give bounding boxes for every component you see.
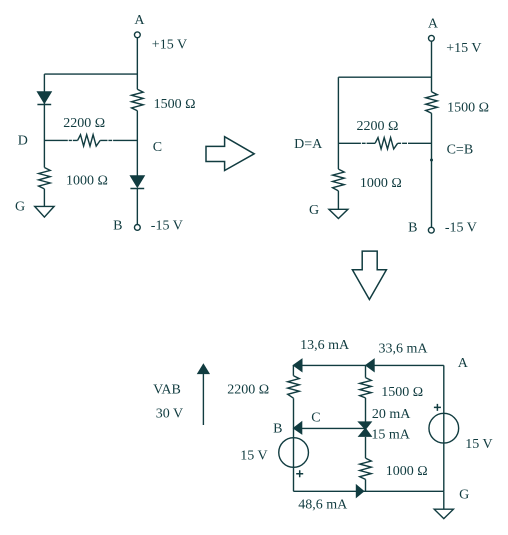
wire mid horizontal B to C junction — [293, 427, 365, 429]
wire resistor to node C=B (circuit 2) — [398, 142, 432, 144]
resistor R-1500 (circuit 1) zigzag — [132, 89, 144, 110]
wire left branch through diode to node D and 1000 ohm — [43, 74, 45, 167]
VAB arrow wire — [202, 374, 204, 426]
svg-text:D: D — [18, 134, 28, 149]
wire node D=A horizontal with leads (circuit 2) — [338, 142, 375, 144]
svg-text:B: B — [273, 422, 282, 437]
junction dot on right branch (circuit 2) — [430, 159, 433, 162]
svg-text:A: A — [134, 13, 145, 28]
wire top horizontal — [44, 73, 137, 75]
wire A to 1500 ohm — [136, 38, 138, 90]
svg-text:15 mA: 15 mA — [371, 427, 410, 442]
wire diode to terminal B — [136, 189, 138, 225]
wire to ground (bottom) — [443, 491, 445, 509]
resistor R-2200 (circuit 1) zigzag — [78, 135, 101, 146]
svg-text:C: C — [311, 410, 320, 425]
voltage source V2 — [429, 413, 459, 443]
svg-text:15 V: 15 V — [240, 449, 267, 464]
svg-text:A: A — [458, 356, 469, 371]
diode D2 — [131, 176, 144, 187]
wire node D horizontal with leads — [44, 139, 77, 141]
svg-text:C=B: C=B — [447, 143, 474, 158]
wire A to 1500 ohm (circuit 2) — [431, 41, 433, 92]
wire 1500 ohm to node C to diode — [136, 111, 138, 176]
svg-text:30 V: 30 V — [156, 407, 183, 422]
svg-text:A: A — [428, 17, 439, 32]
terminal B (circuit 1) — [134, 225, 140, 231]
voltage source V1 — [279, 438, 309, 468]
plus sign V2 — [434, 404, 441, 411]
svg-text:+15 V: +15 V — [446, 41, 481, 56]
wire bottom horizontal (bottom circuit) — [293, 490, 443, 492]
ground (bottom) — [434, 509, 453, 518]
svg-text:20 mA: 20 mA — [372, 407, 411, 422]
wire 1000 ohm to ground (circuit 2) — [337, 191, 339, 209]
svg-text:VAB: VAB — [153, 382, 181, 397]
diode D1 — [38, 92, 51, 103]
svg-text:G: G — [309, 203, 319, 218]
resistor R-1500 (bottom) zigzag — [360, 378, 372, 398]
wire 1500 to C=B to terminal B (circuit 2) — [431, 113, 433, 227]
svg-text:1000 Ω: 1000 Ω — [360, 176, 402, 191]
svg-text:+15 V: +15 V — [152, 37, 187, 52]
current arrow 15 mA (up) — [359, 429, 371, 437]
wire right branch (bottom circuit) — [443, 365, 445, 491]
svg-text:1000 Ω: 1000 Ω — [386, 464, 428, 479]
ground (circuit 1) — [35, 206, 54, 217]
terminal B (circuit 2) — [428, 227, 434, 233]
resistor R-1000 (circuit 2) zigzag — [333, 169, 345, 191]
wire middle branch top (bottom circuit) — [365, 365, 367, 377]
svg-text:48,6 mA: 48,6 mA — [298, 497, 348, 512]
svg-text:1000 Ω: 1000 Ω — [66, 174, 108, 189]
wire 1000 ohm to bottom rail — [365, 479, 367, 491]
svg-text:B: B — [113, 218, 122, 233]
svg-text:33,6 mA: 33,6 mA — [379, 341, 429, 356]
wire left branch (circuit 2) — [337, 77, 339, 169]
svg-text:C: C — [153, 140, 162, 155]
terminal A (circuit 1) — [134, 32, 140, 38]
svg-text:15 V: 15 V — [465, 437, 492, 452]
current arrow 13,6 mA — [294, 360, 302, 372]
terminal A (circuit 2) — [429, 35, 435, 41]
svg-text:1500 Ω: 1500 Ω — [154, 97, 196, 112]
resistor R-2200 (circuit 2) zigzag — [375, 138, 398, 149]
svg-text:2200 Ω: 2200 Ω — [227, 382, 269, 397]
current arrow at B — [294, 422, 302, 433]
wire C junction to 1000 ohm — [365, 437, 367, 458]
current arrow 48,6 mA — [357, 485, 364, 497]
wire top horizontal (circuit 2) — [338, 76, 431, 78]
wire left branch (bottom circuit) — [292, 365, 294, 491]
svg-text:1500 Ω: 1500 Ω — [381, 385, 423, 400]
svg-text:G: G — [459, 488, 469, 503]
svg-text:1500 Ω: 1500 Ω — [447, 100, 489, 115]
svg-text:B: B — [408, 220, 417, 235]
resistor R-1500 (circuit 2) zigzag — [426, 92, 438, 113]
svg-text:-15 V: -15 V — [445, 220, 477, 235]
wire 1500 to C junction — [365, 398, 367, 422]
current arrow 33,6 mA — [366, 360, 374, 372]
current arrow 20 mA (down) — [359, 422, 371, 429]
svg-text:2200 Ω: 2200 Ω — [63, 116, 105, 131]
wire resistor to node C — [100, 139, 137, 141]
VAB arrow head — [198, 365, 209, 374]
svg-text:13,6 mA: 13,6 mA — [300, 338, 350, 353]
resistor R-2200 (bottom) zigzag — [288, 376, 300, 399]
svg-text:G: G — [15, 199, 25, 214]
wire 1000 ohm to ground — [43, 189, 45, 207]
plus sign V1 — [296, 470, 303, 477]
svg-text:-15 V: -15 V — [151, 218, 183, 233]
resistor R-1000 (circuit 1) zigzag — [39, 168, 51, 189]
wire top horizontal (bottom circuit) — [293, 364, 443, 366]
svg-text:2200 Ω: 2200 Ω — [357, 119, 399, 134]
resistor R-1000 (bottom) zigzag — [360, 458, 372, 479]
svg-text:D=A: D=A — [294, 137, 323, 152]
ground (circuit 2) — [329, 209, 348, 218]
